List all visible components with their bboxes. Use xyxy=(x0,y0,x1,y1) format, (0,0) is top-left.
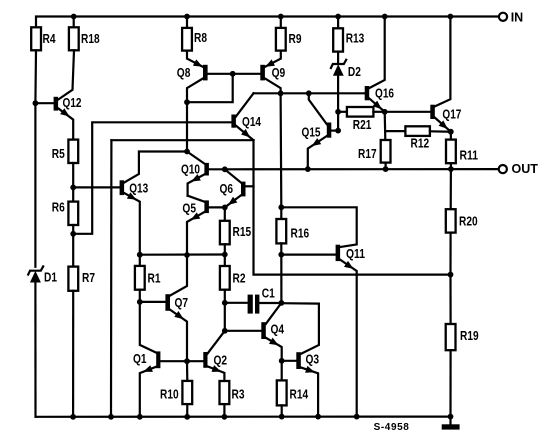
zener diode D2 xyxy=(331,60,361,131)
wire long tail line y140 xyxy=(111,139,253,141)
svg-text:Q9: Q9 xyxy=(272,66,286,80)
resistor R15 xyxy=(220,207,251,254)
resistor R9 xyxy=(276,17,302,51)
transistor Q17 xyxy=(385,17,462,132)
wire Q14 emitter long run to right column xyxy=(254,140,451,274)
node bottom rail R3 xyxy=(222,414,228,420)
transistor Q7 xyxy=(140,255,188,361)
node bottom rail ground xyxy=(448,414,454,420)
node bottom rail R7 xyxy=(70,414,76,420)
node bottom rail R14 xyxy=(279,414,285,420)
transistor Q5 xyxy=(182,196,224,255)
resistor R7 xyxy=(68,267,95,417)
node bottom rail Q11 emitter xyxy=(354,414,360,420)
node bottom rail x111 xyxy=(108,414,114,420)
svg-text:D1: D1 xyxy=(44,271,57,285)
transistor Q3 xyxy=(281,303,319,416)
resistor R8 xyxy=(182,17,207,51)
node Q4 emitter / Q3 base / R14 xyxy=(279,358,285,364)
node R16 bottom / Q11 base xyxy=(278,252,284,258)
svg-text:R17: R17 xyxy=(358,147,377,161)
resistor R11 xyxy=(446,132,478,169)
node Q15 base xyxy=(335,128,341,134)
wire mirror line y93 to Q16 base xyxy=(254,92,365,94)
node row R15 / R2 xyxy=(222,252,228,258)
node Q16 emitter / R21 right / Q17 base xyxy=(382,109,388,115)
node row Q13 emitter / R1 xyxy=(137,252,143,258)
resistor R12 xyxy=(385,126,451,150)
node bottom rail R10 xyxy=(184,414,190,420)
transistor Q2 xyxy=(187,331,227,381)
svg-text:IN: IN xyxy=(511,11,524,25)
svg-text:R20: R20 xyxy=(459,215,478,229)
svg-text:R11: R11 xyxy=(460,149,479,163)
node Q15 emitter on OUT line xyxy=(305,166,311,172)
svg-text:R12: R12 xyxy=(411,137,430,151)
node R5-R6 / Q13 base xyxy=(70,185,76,191)
svg-text:R14: R14 xyxy=(290,388,309,402)
resistor R10 xyxy=(160,361,192,417)
wire mid row y255 xyxy=(140,253,225,255)
resistor R20 xyxy=(446,169,478,275)
node top rail Q16 collector xyxy=(382,14,388,20)
svg-text:C1: C1 xyxy=(262,286,275,300)
resistor R13 xyxy=(333,17,364,63)
capacitor C1 xyxy=(225,286,282,313)
resistor R1 xyxy=(135,255,161,302)
svg-text:Q6: Q6 xyxy=(220,182,234,196)
svg-text:Q12: Q12 xyxy=(63,96,82,110)
svg-text:R4: R4 xyxy=(43,32,56,46)
svg-text:R13: R13 xyxy=(346,32,365,46)
svg-text:R8: R8 xyxy=(194,31,207,45)
svg-text:R21: R21 xyxy=(353,118,372,132)
transistor Q9 xyxy=(260,51,285,94)
svg-text:Q14: Q14 xyxy=(242,115,261,129)
terminal OUT xyxy=(499,162,539,176)
transistor Q16 xyxy=(365,17,394,112)
ground xyxy=(442,417,460,430)
resistor R5 xyxy=(52,140,78,202)
node y93 Q15 collector xyxy=(306,90,312,96)
zener diode D1 xyxy=(28,266,57,416)
svg-text:R6: R6 xyxy=(52,201,65,215)
node bottom rail Q3 emitter xyxy=(315,414,321,420)
node top rail R18 xyxy=(71,14,77,20)
node top rail R9 xyxy=(278,14,284,20)
transistor Q4 xyxy=(225,303,284,361)
node Q5 base / Q6 emitter / R15 xyxy=(222,205,228,211)
svg-text:Q4: Q4 xyxy=(271,323,285,337)
wire left tail column x111 xyxy=(110,140,113,417)
node row center column xyxy=(184,252,190,258)
node R20 bottom / sense line xyxy=(448,272,454,278)
transistor Q6 xyxy=(220,169,254,208)
wire center column x187 upper xyxy=(186,102,188,151)
svg-text:R16: R16 xyxy=(291,227,310,241)
transistor Q8 xyxy=(177,51,260,103)
svg-text:R2: R2 xyxy=(233,272,246,286)
svg-text:R15: R15 xyxy=(233,225,252,239)
svg-text:Q2: Q2 xyxy=(214,354,228,368)
node R6-R7 / feedback tap xyxy=(70,231,76,237)
node Q1 Q2 base / Q7 emitter / R10 xyxy=(184,358,190,364)
svg-text:Q17: Q17 xyxy=(442,107,461,121)
node Q8 collector junction xyxy=(184,99,190,105)
transistor Q11 xyxy=(281,207,365,416)
wire center column x281 from mirror node down to R16 xyxy=(280,93,283,219)
transistor Q13 xyxy=(73,152,187,255)
svg-text:R9: R9 xyxy=(289,32,302,46)
node C1 right / Q4 collector / Q3 collector xyxy=(279,300,285,306)
transistor Q1 xyxy=(133,302,187,417)
resistor R17 xyxy=(358,140,391,169)
svg-text:S-4958: S-4958 xyxy=(374,422,410,433)
wire left column D1 branch xyxy=(34,103,36,267)
svg-text:Q7: Q7 xyxy=(175,296,189,310)
terminal IN xyxy=(499,11,523,25)
svg-text:Q15: Q15 xyxy=(302,126,321,140)
resistor R2 xyxy=(220,255,246,331)
svg-text:R18: R18 xyxy=(81,32,100,46)
wire top supply rail xyxy=(36,17,499,28)
node Q8 Q9 base tie xyxy=(230,71,236,77)
node top rail R8 xyxy=(184,14,190,20)
svg-text:R19: R19 xyxy=(460,329,479,343)
resistor R18 xyxy=(69,17,100,51)
svg-text:R7: R7 xyxy=(82,271,95,285)
resistor R6 xyxy=(52,201,78,267)
resistor R3 xyxy=(220,381,245,417)
svg-text:Q5: Q5 xyxy=(182,202,196,216)
node R21 left xyxy=(335,109,341,115)
resistor R16 xyxy=(276,219,309,303)
node R17 bottom on OUT line xyxy=(383,166,389,172)
wire tap R6-R7 up to Q14 base xyxy=(73,122,231,234)
node Q10 base / Q6 collector xyxy=(222,166,228,172)
resistor R14 xyxy=(277,361,308,417)
svg-text:Q11: Q11 xyxy=(346,247,365,261)
node top rail R13 xyxy=(335,14,341,20)
svg-text:R3: R3 xyxy=(232,388,245,402)
wire Q16 emitter down to R17 xyxy=(384,112,387,140)
svg-text:Q16: Q16 xyxy=(375,86,394,100)
svg-text:OUT: OUT xyxy=(512,162,539,176)
svg-text:Q10: Q10 xyxy=(181,163,200,177)
node Q2 collector / Q4 base xyxy=(222,328,228,334)
wire OUT feedback line xyxy=(225,168,499,170)
resistor R21 xyxy=(338,107,385,132)
node center column x187 y151 xyxy=(184,149,190,155)
node Q12 base / R4 bottom xyxy=(33,100,39,106)
transistor Q15 xyxy=(302,93,339,169)
svg-text:Q8: Q8 xyxy=(177,66,191,80)
transistor Q14 xyxy=(231,93,261,140)
node bottom rail Q1 emitter xyxy=(137,414,143,420)
svg-text:R1: R1 xyxy=(148,272,161,286)
svg-text:Q1: Q1 xyxy=(133,352,147,366)
svg-text:R5: R5 xyxy=(52,147,65,161)
node R16 top / Q11 collector xyxy=(278,204,284,210)
svg-text:D2: D2 xyxy=(348,65,361,79)
wire Q8-Q9 base elbow to Q8 collector xyxy=(187,74,233,102)
wire bottom rail xyxy=(36,416,451,418)
node R11 bottom / R20 top on OUT line xyxy=(448,166,454,172)
node Q17 emitter / R12 right / R11 top xyxy=(448,129,454,135)
node R1 bottom / Q7 base xyxy=(137,299,143,305)
transistor Q10 xyxy=(181,152,225,196)
node y93 Q9 collector xyxy=(278,90,284,96)
transistor Q12 xyxy=(35,50,81,139)
node top rail Q17 collector xyxy=(448,14,454,20)
svg-text:Q3: Q3 xyxy=(306,353,320,367)
node R2 bottom / C1 left xyxy=(222,300,228,306)
resistor R19 xyxy=(446,275,479,417)
svg-text:Q13: Q13 xyxy=(129,182,148,196)
resistor R4 xyxy=(31,27,55,103)
svg-text:R10: R10 xyxy=(160,388,179,402)
